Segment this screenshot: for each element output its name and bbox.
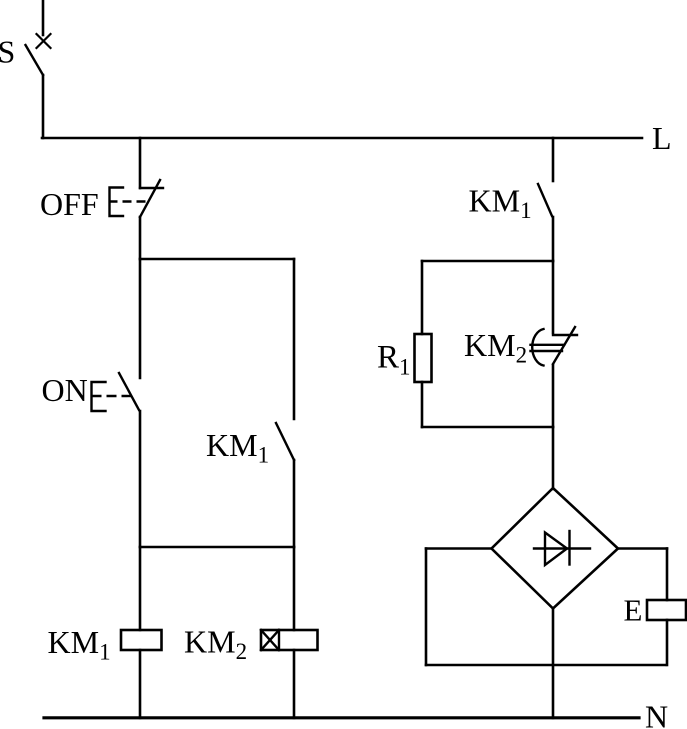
svg-text:KM2: KM2 [464, 327, 527, 368]
svg-text:KM1: KM1 [48, 624, 111, 665]
wire: bridge left arm down [425, 549, 428, 666]
OFF button fixed contact tick [140, 187, 163, 189]
wire: junction B to KM2 coil [293, 547, 296, 630]
wire: bridge bottom rail [426, 664, 665, 667]
ON button actuator [92, 382, 132, 411]
wire: junction B to KM1 coil [139, 547, 142, 630]
wire: bridge left vertex horizontal [426, 547, 491, 550]
OFF button NC blade [140, 180, 160, 217]
wire: junction A horizontal to KM1 holding branch [140, 258, 294, 261]
wire: switch S to L bus [42, 75, 45, 138]
KM1 main contact blade [538, 184, 552, 216]
bridge rectifier diamond [492, 488, 619, 609]
wire: junction C horizontal to R1 branch [422, 260, 553, 263]
wire: KM2 coil to N bus [293, 650, 296, 718]
wire: electromagnet E to bottom rail [666, 620, 669, 665]
svg-text:L: L [652, 120, 672, 156]
wire: junction C to KM2 delayed contact [552, 261, 555, 333]
wire: N bus [44, 716, 639, 719]
OFF button actuator [109, 188, 148, 217]
electromagnet E [647, 600, 686, 620]
wire: holding branch down to KM1 contact [293, 259, 296, 419]
wire: right arm down to electromagnet E [666, 549, 669, 601]
wire: KM1 contact to junction B [293, 460, 296, 547]
wire: junction D to bridge rectifier [552, 427, 555, 489]
wire: KM1 coil to N bus [139, 650, 142, 718]
wire: OFF button to junction A [139, 217, 142, 259]
wire: supply lead into switch S [42, 0, 45, 35]
wire: R1 bottom lead [421, 382, 424, 427]
svg-text:S: S [0, 34, 15, 70]
KM1 holding contact blade [276, 423, 294, 460]
resistor R1 [415, 334, 432, 382]
wire: junction A to ON button [139, 259, 142, 378]
wire: R1 branch bottom horizontal to junction D [422, 426, 553, 429]
wire: R1 top lead [421, 261, 424, 334]
diode symbol inside bridge [534, 531, 590, 565]
wire: L bus to OFF button [139, 138, 142, 188]
wire: ON button to junction B [139, 411, 142, 547]
svg-text:KM2: KM2 [184, 624, 247, 665]
wire: L bus to KM1 main contact [552, 138, 555, 181]
switch S blade [26, 45, 44, 75]
svg-text:OFF: OFF [40, 186, 99, 222]
coil KM2 (latching, with X box) [261, 630, 318, 650]
wire: bridge right vertex horizontal [618, 547, 667, 550]
svg-text:KM1: KM1 [206, 427, 269, 468]
svg-text:R1: R1 [377, 340, 411, 380]
wire: junction B horizontal [140, 546, 294, 549]
ON button NO blade [119, 373, 139, 410]
coil KM1 [121, 630, 162, 650]
KM2 delayed NC contact [531, 327, 578, 366]
wire: L bus [42, 137, 642, 140]
wire: bridge bottom vertex to N bus [552, 608, 555, 718]
svg-text:E: E [624, 593, 643, 628]
svg-text:N: N [645, 699, 668, 729]
wire: KM1 main contact to junction C [552, 217, 555, 261]
switch S fixed contact X mark [37, 34, 51, 48]
svg-text:ON: ON [42, 372, 88, 408]
svg-text:KM1: KM1 [469, 183, 532, 224]
wire: KM2 delayed contact to junction D [552, 365, 555, 427]
